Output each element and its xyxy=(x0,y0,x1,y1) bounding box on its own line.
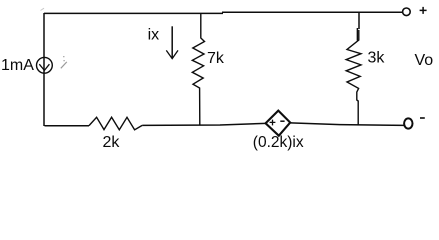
svg-text:3k: 3k xyxy=(368,50,386,67)
svg-text:ix: ix xyxy=(148,27,160,44)
svg-text:2k: 2k xyxy=(103,134,121,151)
svg-text:7k: 7k xyxy=(207,50,225,67)
svg-text:1mA: 1mA xyxy=(1,57,34,74)
svg-text:Vo: Vo xyxy=(415,52,434,69)
svg-text:(0.2k)ix: (0.2k)ix xyxy=(253,134,304,151)
